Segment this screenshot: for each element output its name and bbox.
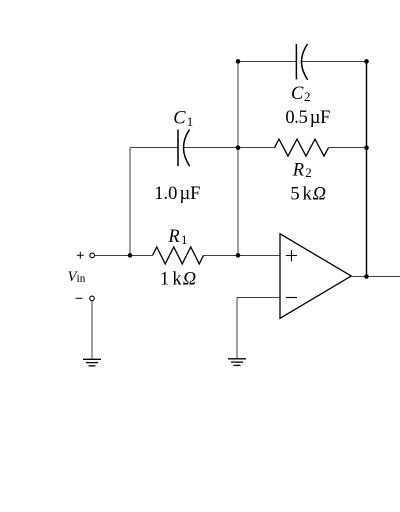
svg-text:5kΩ: 5kΩ [290,184,326,204]
resistor R1 [153,247,204,264]
wire right vertical (output feedback net) [366,61,368,276]
capacitor C1 [178,130,190,167]
wire op-amp - input to ground branch [237,298,280,359]
node junction C2 right [364,59,369,64]
wire top-right segment (C2 right lead) [302,60,367,62]
terminal Vin + [90,253,95,258]
ground (left, at Vin-) [83,359,101,366]
wire output [367,275,400,277]
svg-text:2: 2 [305,165,312,180]
wire C1 left loop [130,148,178,256]
svg-text:in: in [77,273,86,285]
wire Vin+ to R1 [95,254,153,256]
svg-text:C: C [291,84,304,104]
resistor R2 [275,139,329,156]
svg-text:R: R [167,227,179,247]
wire R2 left lead [238,147,275,149]
capacitor C2 [296,44,307,80]
svg-text:C: C [173,109,186,129]
svg-text:R: R [292,161,304,181]
wire R1 to op-amp + input [204,254,281,256]
terminal Vin - [90,296,95,301]
plus sign at Vin+ [77,252,84,259]
wire middle vertical node (C2/C1/R1 node) [237,61,239,255]
node junction R1 right [236,253,241,258]
svg-text:1: 1 [187,114,194,129]
wire C1 right lead [184,147,239,149]
wire op-amp output lead [351,275,366,277]
wire R2 right lead [329,147,367,149]
svg-text:2: 2 [304,89,311,104]
node junction Vin [128,253,133,258]
node junction C2 left [236,59,241,64]
svg-text:1: 1 [181,232,188,247]
wire Vin- terminal down to ground [91,301,93,359]
node junction R2 right [364,145,369,150]
node junction C1 right [236,145,241,150]
op-amp U1 [280,234,351,318]
ground (at op-amp - input) [228,359,246,366]
minus sign at Vin- [76,297,83,299]
svg-text:1kΩ: 1kΩ [160,269,197,289]
node junction output [364,274,369,279]
wire top-left segment (C2 left lead) [238,60,296,62]
